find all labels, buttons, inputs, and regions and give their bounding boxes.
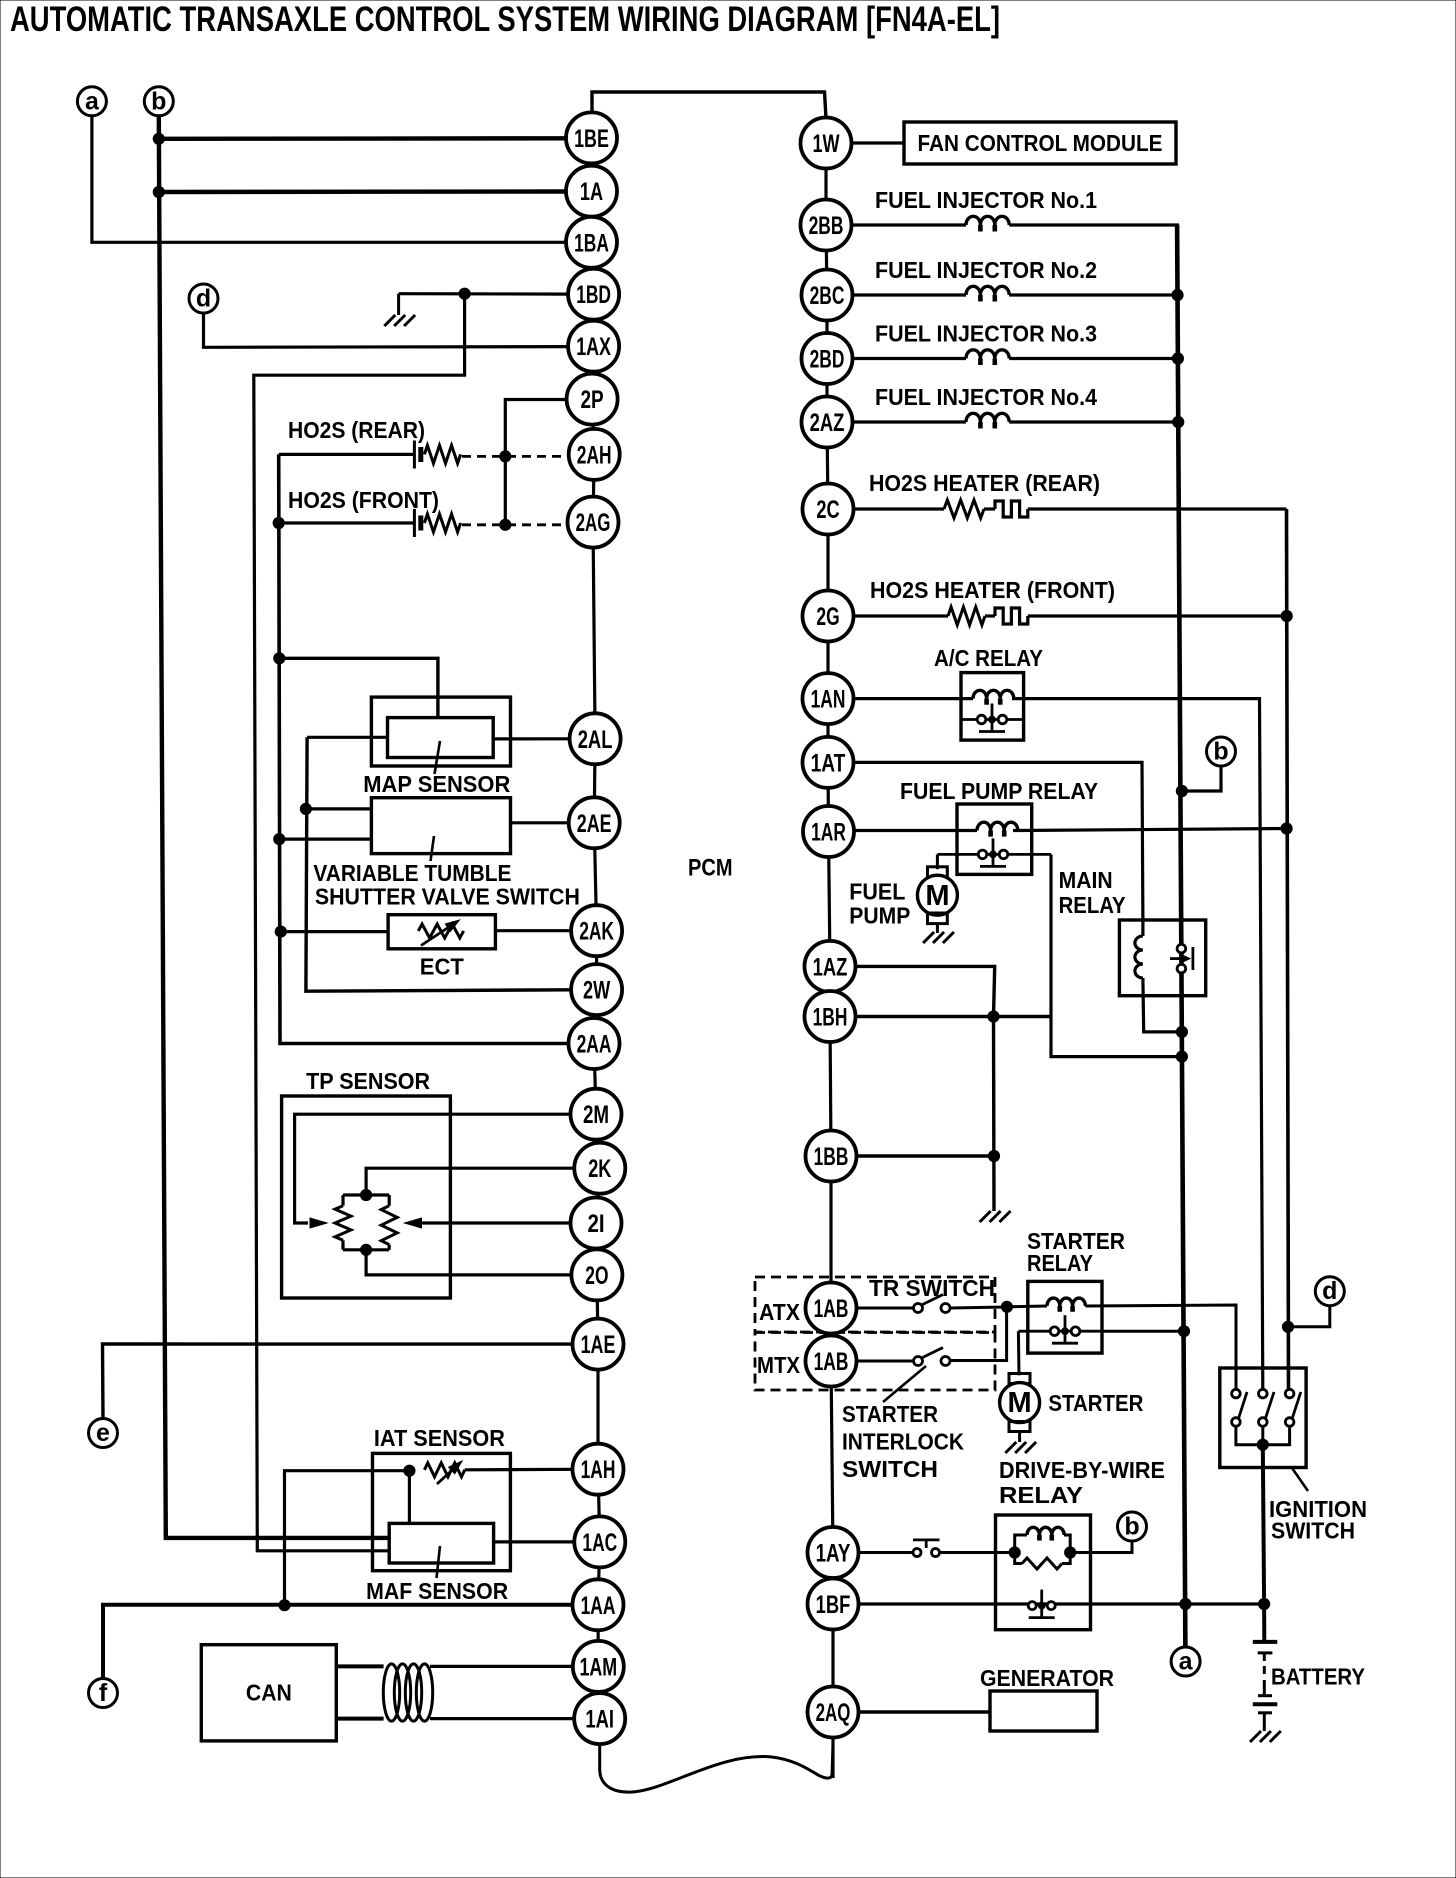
pin 2W [571,964,622,1015]
svg-text:FUEL INJECTOR No.1: FUEL INJECTOR No.1 [875,187,1097,213]
svg-text:TP SENSOR: TP SENSOR [306,1068,430,1094]
svg-text:SHUTTER VALVE SWITCH: SHUTTER VALVE SWITCH [315,883,580,909]
pin 1BB [806,1131,857,1182]
svg-text:FUEL INJECTOR No.3: FUEL INJECTOR No.3 [875,321,1097,347]
svg-text:b: b [1124,1513,1139,1541]
junction 1BH / 1AZ [988,1011,999,1022]
wire IAT node to MAF sensor [408,1471,411,1524]
junction injector bus No.2 [1172,289,1183,300]
pin 2AL [570,713,621,764]
wire 1BB to ground branch [857,1154,994,1157]
pin 1AI [574,1693,625,1744]
svg-text:2AK: 2AK [579,918,614,946]
pin 1AY [808,1527,859,1578]
pin 2AQ [808,1687,859,1738]
ignition switch common bus [1236,1426,1290,1445]
wire starter relay contact to starter motor [1017,1331,1021,1375]
pin 1AE [573,1319,624,1370]
junction battery bus / main relay coil [1176,1026,1187,1037]
wire 1AX to node d [204,313,569,348]
wire tumble switch upper left branch [306,807,372,810]
svg-text:HO2S HEATER (REAR): HO2S HEATER (REAR) [869,470,1100,496]
HO2S (FRONT) sensor cell and element [279,521,414,524]
svg-text:ATX: ATX [759,1299,800,1325]
momentary switch contacts [913,1549,921,1557]
svg-text:2AE: 2AE [577,810,612,838]
tumble switch leader line [431,836,435,861]
starter relay contact [1018,1330,1102,1333]
wire 1AH to IAT [465,1468,573,1472]
fan control module box [904,122,1176,164]
pin 1A [566,166,617,217]
svg-text:MAP SENSOR: MAP SENSOR [363,771,510,797]
junction battery bus / relay-contact return [1176,1051,1187,1062]
MAP sensor outer box [371,697,510,766]
ignition switch box [1220,1368,1306,1468]
svg-text:1AB: 1AB [814,1348,849,1376]
ground symbol fuel pump [936,924,939,933]
svg-text:1AY: 1AY [816,1540,851,1568]
wire 1AE to node e [103,1344,574,1420]
starter interlock leader line [883,1366,926,1402]
svg-text:1W: 1W [812,130,839,158]
wire 1AT to main relay coil [854,762,1143,921]
pin 1AN [803,673,854,724]
node b (right lower) [1118,1512,1147,1541]
node e [89,1419,118,1448]
svg-text:2AG: 2AG [576,509,611,537]
pin 2AA [569,1018,620,1069]
svg-text:2G: 2G [816,603,839,631]
wire tumble switch lower left branch [279,837,371,840]
svg-text:SWITCH: SWITCH [842,1456,938,1482]
svg-text:PUMP: PUMP [849,903,910,929]
svg-text:2AL: 2AL [578,726,613,754]
drive-by-wire relay box [996,1515,1091,1630]
junction node b / 1BE [153,133,164,144]
pin 2BB [801,200,852,251]
pin 2M [571,1089,622,1140]
wire FUEL INJECTOR No.4 to battery bus [1009,420,1180,423]
pin 2AZ [802,397,853,448]
wire 1BF through drive-by-wire contact to battery [859,1602,1264,1605]
junction TR switches [1001,1301,1012,1312]
node a (right) [1171,1647,1200,1676]
wire 2I to TP wiper right [420,1221,571,1224]
wire dashed HO2S (FRONT) to 2AG [462,523,568,526]
svg-text:CAN: CAN [246,1680,292,1706]
pin 1BE [566,112,617,163]
svg-text:MTX: MTX [757,1352,800,1378]
pin 2C [803,484,854,535]
wire 1W to fan control module [852,141,904,144]
svg-text:1AC: 1AC [582,1529,617,1557]
MAP sensor inner box [388,718,494,758]
wire ECT left branch [281,930,388,933]
junction 2W branch / tumble upper [300,803,311,814]
svg-text:1AI: 1AI [585,1706,614,1734]
svg-text:A/C RELAY: A/C RELAY [934,645,1043,671]
HO2S (REAR) sensor cell and element [279,453,414,456]
pin 2AK [571,905,622,956]
junction sensor-ground / ECT [275,926,286,937]
svg-text:1AT: 1AT [811,749,846,777]
svg-text:STARTER: STARTER [842,1401,938,1427]
ECT thermistor element [418,924,463,938]
junction TP bottom node [361,1244,372,1255]
ground symbol starter [1018,1432,1021,1443]
wire CAN to twisted pair upper [336,1664,383,1668]
pin 1AT [803,737,854,788]
wire fuel pump relay contact to fuel pump [936,854,939,869]
svg-text:TR SWITCH: TR SWITCH [869,1275,995,1301]
junction relay bus / 1AR [1281,823,1292,834]
svg-text:GENERATOR: GENERATOR [980,1665,1114,1691]
wire starter relay coil to ignition switch left [1085,1305,1236,1390]
svg-text:ECT: ECT [420,954,465,980]
svg-text:1AX: 1AX [576,333,611,361]
MTX dashed box [755,1333,995,1391]
FUEL INJECTOR No.1 coil [852,223,966,226]
svg-text:FUEL: FUEL [849,879,905,905]
junction HO2S rear / 2P bus [500,451,511,462]
MAP sensor leader line [435,741,441,774]
MAF sensor leader line [437,1546,441,1578]
pin 1AR [803,806,854,857]
pin 1AZ [805,941,856,992]
fuel pump relay box [957,804,1032,874]
wire branch 1BD junction down-left to MAF sensor [254,294,465,1551]
wire 1BA to node a [92,115,567,242]
svg-text:e: e [96,1419,110,1447]
junction battery feed / 1BF [1259,1598,1270,1609]
wire drive-by-wire relay to node b [1070,1539,1132,1553]
svg-text:1A: 1A [580,178,603,206]
wire 1AN through A/C relay coil [854,697,973,700]
svg-text:1BH: 1BH [813,1004,848,1032]
FUEL INJECTOR No.2 coil [852,293,966,296]
twisted pair coil [383,1664,399,1721]
node d (left) [189,284,218,313]
svg-text:2W: 2W [583,977,610,1005]
svg-text:d: d [196,285,211,313]
svg-text:FAN CONTROL MODULE: FAN CONTROL MODULE [918,130,1163,156]
svg-text:a: a [1179,1648,1194,1676]
svg-text:AUTOMATIC TRANSAXLE CONTROL SY: AUTOMATIC TRANSAXLE CONTROL SYSTEM WIRIN… [10,0,1000,39]
TR switch (ATX) contacts [857,1307,914,1310]
ignition switch pole 3 [1285,1389,1294,1398]
svg-text:SWITCH: SWITCH [1271,1518,1355,1544]
svg-text:a: a [85,87,100,115]
pin 1W [801,118,852,169]
main relay contact [1170,944,1193,973]
wire HO2S heater rear to relay bus [1028,507,1287,510]
fuel pump relay contact [937,853,1051,856]
ground symbol battery [1263,1724,1266,1731]
svg-text:1BB: 1BB [814,1143,849,1171]
svg-text:STARTER: STARTER [1048,1390,1143,1416]
wire FUEL INJECTOR No.1 to battery bus [1009,223,1179,226]
junction node b / 1A [153,186,164,197]
TP sensor box [282,1096,451,1298]
pin 2AH [569,429,620,480]
junction 1BD wire / branch vertical [459,288,470,299]
FUEL INJECTOR No.4 coil [852,420,966,423]
pin 2K [574,1143,625,1194]
svg-text:2O: 2O [585,1262,608,1290]
svg-text:1AA: 1AA [581,1592,616,1620]
TP potentiometer element [343,1193,389,1196]
A/C relay contact [961,718,1024,721]
pin 2P [567,374,618,425]
HO2S heater rear resistor and element [854,507,944,510]
starter motor [1009,1374,1030,1384]
junction 1BB / ground branch [988,1150,999,1161]
wire starter relay contact to battery bus [1102,1330,1184,1333]
junction drive-by-wire coil right [1065,1547,1076,1558]
wire node b to battery bus [1183,765,1222,791]
pin 2I [571,1198,622,1249]
pin 2O [571,1249,622,1300]
svg-text:1AR: 1AR [811,819,846,847]
fuel pump relay coil [977,822,1018,836]
wire 2AL left branch [307,736,387,739]
ATX dashed box [755,1277,995,1332]
junction relay bus / heater front [1281,610,1292,621]
junction IAT thermistor node [404,1465,415,1476]
svg-text:RELAY: RELAY [1027,1250,1093,1276]
pin 2AG [568,497,619,548]
wire dashed HO2S (REAR) to 2AH [462,455,569,458]
svg-text:2C: 2C [816,496,839,524]
svg-text:2K: 2K [588,1155,611,1183]
svg-text:1BA: 1BA [574,229,609,257]
junction sensor-ground / HO2S front [273,517,284,528]
junction injector bus No.3 [1172,353,1183,364]
ignition switch pole 2 [1259,1389,1268,1398]
ground symbol 1BB branch [980,1211,1011,1222]
wire PCM right connector chain [824,143,827,225]
variable tumble shutter valve switch box [371,798,510,854]
TR switch (MTX) contacts [857,1360,914,1363]
junction ignition common [1257,1439,1268,1450]
wire 1A to node b [159,189,567,194]
svg-text:1AN: 1AN [811,686,846,714]
FUEL INJECTOR No.3 coil [852,357,966,360]
wire ignition common to battery [1263,1445,1264,1604]
svg-text:FUEL INJECTOR No.2: FUEL INJECTOR No.2 [875,257,1097,283]
wire 1AH feed left branch [285,1471,410,1606]
svg-text:FUEL INJECTOR No.4: FUEL INJECTOR No.4 [875,384,1097,410]
wire left sensor-ground vertical to 2AA [279,454,569,1043]
starter relay coil [1047,1298,1085,1312]
starter relay box [1028,1281,1102,1353]
wire MAP sensor top feed [279,658,438,717]
pin 2BD [802,333,853,384]
wire 1AA to node f [103,1605,573,1680]
fuel pump motor [928,867,948,878]
generator box [990,1691,1097,1731]
ignition switch pole 1 [1232,1389,1241,1398]
wire 1AZ down to 1BH [856,966,995,1016]
main relay coil [1135,936,1143,978]
wire node d to relay feed bus [1289,1305,1330,1327]
svg-text:2P: 2P [581,386,604,414]
wire CAN to twisted pair lower [336,1717,383,1721]
IAT thermistor element [424,1463,464,1477]
svg-text:1AZ: 1AZ [813,953,848,981]
ground symbol near 1BD [397,294,400,315]
MAF sensor box [389,1523,493,1563]
node f [89,1679,118,1708]
pin 1BF [808,1579,859,1630]
pin 1BA [566,217,617,268]
pin 1AX [568,321,619,372]
HO2S heater front resistor and element [854,614,948,617]
ECT sensor box [388,915,495,949]
wire 1BH to relay-contact return [856,1015,1051,1018]
wire TR switch ATX to starter relay coil [950,1307,1007,1308]
wire 1AR through fuel pump relay coil [855,829,978,832]
svg-text:1BD: 1BD [576,281,611,309]
pin 1AB (ATX) [806,1283,857,1334]
svg-text:HO2S HEATER (FRONT): HO2S HEATER (FRONT) [870,577,1115,603]
wire 2AQ to generator [859,1710,990,1713]
svg-text:MAIN: MAIN [1059,867,1113,893]
pin 1BD [568,269,619,320]
wire 2AK to ECT [495,929,571,932]
svg-text:HO2S (REAR): HO2S (REAR) [288,417,425,443]
wire fuel pump relay contact to bus low junction [1051,854,1182,1056]
junction HO2S front / 2P bus [500,519,511,530]
svg-text:f: f [99,1679,108,1707]
wire 1AY to momentary switch [859,1551,913,1554]
svg-text:IAT SENSOR: IAT SENSOR [374,1425,505,1451]
svg-text:1AE: 1AE [581,1331,616,1359]
drive-by-wire relay contact [1028,1590,1055,1618]
wire PCM boundary squiggle 1AI to 2AQ [600,1744,833,1792]
main relay box [1119,920,1205,996]
svg-text:b: b [1213,738,1228,766]
svg-text:2AA: 2AA [577,1031,612,1059]
svg-text:d: d [1322,1277,1337,1305]
ignition switch leader line [1292,1468,1308,1491]
svg-text:1BE: 1BE [574,125,609,153]
junction drive-by-wire coil left [1009,1547,1020,1558]
wire 2AL to MAP sensor [493,737,570,740]
svg-text:HO2S (FRONT): HO2S (FRONT) [288,487,439,513]
wire vertical branch to 2W [306,737,571,991]
CAN module box [201,1645,336,1741]
node b (left) [144,87,173,116]
svg-text:FUEL PUMP RELAY: FUEL PUMP RELAY [900,778,1098,804]
junction sensor-ground / MAP feed [274,653,285,664]
svg-text:RELAY: RELAY [999,1482,1083,1508]
wire PCM top bus 1BE to 1W [592,92,826,118]
wire HO2S heater front to relay bus [1028,614,1287,617]
drive-by-wire relay coil and resistor (parallel) [1015,1535,1027,1553]
wire 2AE to tumble switch [511,821,569,824]
svg-text:M: M [1008,1387,1032,1419]
svg-text:M: M [925,880,949,912]
junction battery bus / 1BF [1180,1598,1191,1609]
pin 1AA [573,1579,624,1630]
wire node b vertical feed to MAF sensor [159,115,389,1538]
svg-text:1AM: 1AM [579,1653,617,1681]
wire TR switch MTX up to ATX node [950,1307,1007,1361]
wire twisted pair to 1AM [430,1665,573,1668]
svg-text:MAF SENSOR: MAF SENSOR [366,1578,508,1604]
wire 1AN to ignition switch middle [1012,699,1263,1390]
wire 1AR to relay feed bus [1013,829,1287,831]
svg-text:DRIVE-BY-WIRE: DRIVE-BY-WIRE [999,1457,1165,1483]
wire 1AC to MAF sensor [494,1540,575,1543]
wire FUEL INJECTOR No.3 to battery bus [1009,357,1180,360]
svg-text:BATTERY: BATTERY [1271,1664,1365,1690]
pin 1BH [805,991,856,1042]
wire 1BD to ground [399,292,569,296]
wire twisted pair to 1AI [430,1717,574,1720]
pin 2AE [569,797,620,848]
svg-text:2M: 2M [583,1101,609,1129]
svg-text:2BD: 2BD [810,346,845,374]
junction battery bus / starter relay contact [1178,1326,1189,1337]
svg-text:2BB: 2BB [809,212,844,240]
svg-text:1AB: 1AB [814,1295,849,1323]
wire 2K to TP top node [366,1168,574,1193]
svg-text:1BF: 1BF [816,1591,851,1619]
pin 1AM [573,1641,624,1692]
wire ground branch vertical [992,1017,996,1212]
TP wiper arrow right [405,1218,422,1228]
wire main battery bus (vertical) [1177,225,1185,1651]
wire FUEL INJECTOR No.2 to battery bus [1009,293,1179,296]
svg-text:2AH: 2AH [577,441,612,469]
pin 2BC [802,270,853,321]
svg-text:RELAY: RELAY [1059,892,1126,918]
svg-text:2BC: 2BC [810,282,845,310]
svg-text:VARIABLE TUMBLE: VARIABLE TUMBLE [313,860,511,886]
wire into starter relay coil [1007,1305,1047,1309]
junction 1AA / IAT branch [279,1600,290,1611]
svg-text:INTERLOCK: INTERLOCK [842,1429,964,1455]
wire 2P to HO2S sense bus [505,400,567,526]
IAT sensor box [373,1453,511,1570]
node a (left) [77,87,106,116]
svg-text:2AQ: 2AQ [816,1699,851,1727]
wire relay feed bus (vertical right) [1287,509,1289,1390]
svg-text:b: b [151,87,166,115]
wire 1BE to node b [159,136,567,141]
junction injector bus No.4 [1173,416,1184,427]
TP wiper arrow left [310,1218,327,1228]
wire momentary switch to relay coil [940,1551,1015,1554]
A/C relay box [961,673,1024,741]
svg-text:2AZ: 2AZ [810,409,845,437]
wire 2M to TP wiper left [295,1114,571,1223]
junction TP top node [361,1189,372,1200]
pin 1AH [573,1444,624,1495]
pin 2G [803,591,854,642]
svg-text:PCM: PCM [688,855,733,882]
wire 2O to TP bottom node [366,1252,571,1275]
pin 1AC [574,1516,625,1567]
A/C relay coil [973,690,1014,704]
svg-text:2I: 2I [587,1210,604,1238]
wire main relay coil return to battery bus [1143,978,1182,1032]
battery symbol [1262,1604,1266,1642]
wire PCM left connector chain [590,138,593,191]
